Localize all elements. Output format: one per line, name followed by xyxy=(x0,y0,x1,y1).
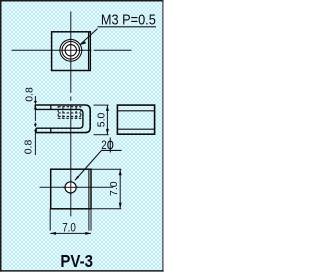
value label "5.0" xyxy=(95,112,107,127)
value label "7.0" (bottom) xyxy=(62,221,76,234)
value label "0.8" (top plate) xyxy=(23,87,35,102)
thread circles M3 xyxy=(60,39,82,61)
hatched drawing background xyxy=(2,1,164,271)
dimension 0.8 (bottom plate) xyxy=(34,123,36,156)
svg-text:M3 P=0.5: M3 P=0.5 xyxy=(101,11,156,28)
dimension 0.8 (top plate) xyxy=(34,96,36,121)
square outline xyxy=(51,169,91,209)
clip inner profile xyxy=(35,109,83,128)
arrowhead up (0.8 top) xyxy=(34,106,37,109)
value label "7.0" (right) xyxy=(108,181,120,196)
arrowhead down (7.0 right) xyxy=(119,203,122,209)
border frame xyxy=(0,0,164,272)
value label "M3 P=0.5" xyxy=(101,11,156,28)
arrowhead of M3 leader xyxy=(79,41,86,45)
bend mark bottom plate xyxy=(50,128,52,134)
centerline horizontal over hole xyxy=(63,186,78,188)
leader line for thread callout M3 xyxy=(80,27,156,45)
svg-text:7.0: 7.0 xyxy=(108,181,120,196)
bend mark top plate xyxy=(50,105,52,111)
arrowhead up (0.8 bottom) xyxy=(34,129,37,131)
hidden threaded bush (dashed lines) xyxy=(58,107,81,119)
body outline square (plan) xyxy=(52,32,91,71)
end view outline xyxy=(117,105,154,134)
arrowhead up (7.0 right) xyxy=(119,169,122,175)
end view top plate inner edge xyxy=(117,110,154,112)
arrowhead right (7.0 bottom) xyxy=(85,232,91,235)
centerline vertical over hole xyxy=(70,180,72,195)
leader line for 2-phi callout xyxy=(75,150,122,180)
hole 2-phi xyxy=(65,182,76,193)
arrowhead left (7.0 bottom) xyxy=(50,232,56,235)
centerline vertical over circles xyxy=(70,38,72,63)
arrowhead down (0.8 top) xyxy=(34,101,37,105)
arrowhead down (5.0) xyxy=(106,129,109,135)
dimension 7.0 (vertical, right side): extension and dimension lines xyxy=(91,169,121,209)
arrowhead down (0.8 bottom) xyxy=(34,124,37,128)
svg-text:5.0: 5.0 xyxy=(95,112,107,127)
end view bottom plate inner edge xyxy=(117,128,154,130)
arrowhead of 2-phi leader xyxy=(75,176,79,181)
value label "2phi" xyxy=(101,136,114,153)
inner edge line near right xyxy=(88,170,90,209)
centerline horizontal (bottom view) xyxy=(40,186,114,188)
inner edge line near right side xyxy=(88,33,90,70)
value label "0.8" (bottom plate) xyxy=(22,140,34,155)
top plate left end cap xyxy=(34,104,36,110)
dimension 7.0 (horizontal, bottom): extension and dimension lines xyxy=(50,209,91,234)
svg-text:0.8: 0.8 xyxy=(23,87,35,102)
dimension 5.0 xyxy=(94,105,109,135)
svg-text:PV-3: PV-3 xyxy=(60,252,93,271)
svg-text:0.8: 0.8 xyxy=(22,140,34,155)
page background xyxy=(0,0,165,274)
centerline horizontal (top view) xyxy=(12,49,132,51)
svg-text:7.0: 7.0 xyxy=(62,221,76,234)
arrowhead up (5.0) xyxy=(106,105,109,111)
clip outer profile xyxy=(35,105,90,133)
svg-text:2ϕ: 2ϕ xyxy=(101,136,114,153)
centerline horizontal over circles xyxy=(59,49,83,51)
part name label "PV-3" xyxy=(60,252,93,271)
centerline vertical (shared by top, side and bottom views) xyxy=(70,12,72,217)
